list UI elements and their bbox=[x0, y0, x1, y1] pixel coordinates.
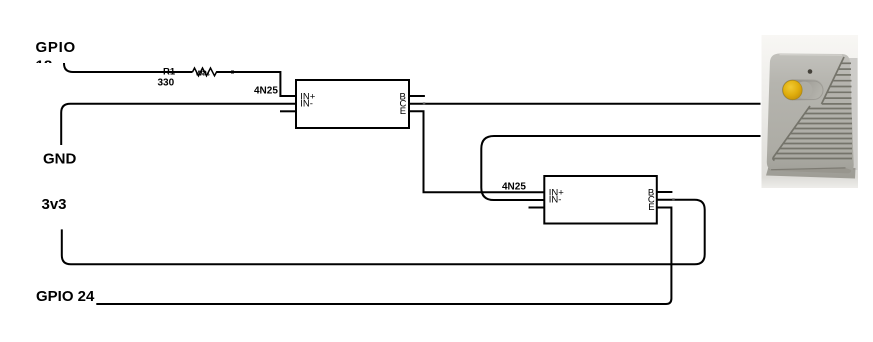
svg-text:GPIO 24: GPIO 24 bbox=[36, 288, 95, 305]
svg-text:GND: GND bbox=[43, 151, 77, 168]
svg-text:R1: R1 bbox=[163, 67, 176, 78]
svg-text:E: E bbox=[400, 106, 406, 117]
svg-text:18: 18 bbox=[36, 58, 53, 75]
svg-text:IN-: IN- bbox=[300, 99, 313, 110]
svg-text:IN-: IN- bbox=[549, 195, 562, 206]
svg-text:GPIO: GPIO bbox=[36, 39, 76, 56]
svg-text:3v3: 3v3 bbox=[42, 196, 67, 213]
svg-text:wa↓: wa↓ bbox=[195, 68, 211, 78]
svg-text:E: E bbox=[648, 202, 654, 213]
svg-text:330: 330 bbox=[158, 78, 175, 89]
svg-text:4N25: 4N25 bbox=[502, 182, 526, 193]
svg-text:4N25: 4N25 bbox=[254, 86, 278, 97]
